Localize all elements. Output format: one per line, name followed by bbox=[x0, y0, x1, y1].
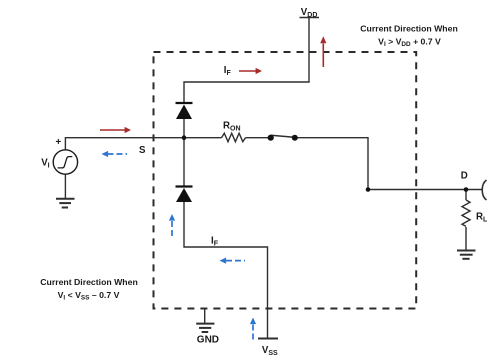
svg-text:Current Direction When: Current Direction When bbox=[360, 23, 458, 33]
svg-text:VI < VSS – 0.7 V: VI < VSS – 0.7 V bbox=[58, 290, 120, 302]
svg-text:RL: RL bbox=[476, 212, 488, 224]
svg-text:IF: IF bbox=[224, 65, 232, 77]
svg-text:VDD: VDD bbox=[301, 7, 318, 19]
svg-text:Current Direction When: Current Direction When bbox=[40, 277, 138, 287]
svg-text:S: S bbox=[139, 145, 146, 156]
svg-text:VI > VDD + 0.7 V: VI > VDD + 0.7 V bbox=[378, 36, 441, 48]
svg-text:VI: VI bbox=[41, 158, 49, 170]
svg-text:RON: RON bbox=[223, 121, 241, 133]
svg-text:+: + bbox=[56, 137, 62, 148]
svg-text:VSS: VSS bbox=[262, 345, 278, 357]
svg-text:D: D bbox=[461, 171, 468, 182]
svg-text:GND: GND bbox=[197, 335, 219, 346]
svg-text:IF: IF bbox=[211, 236, 219, 248]
